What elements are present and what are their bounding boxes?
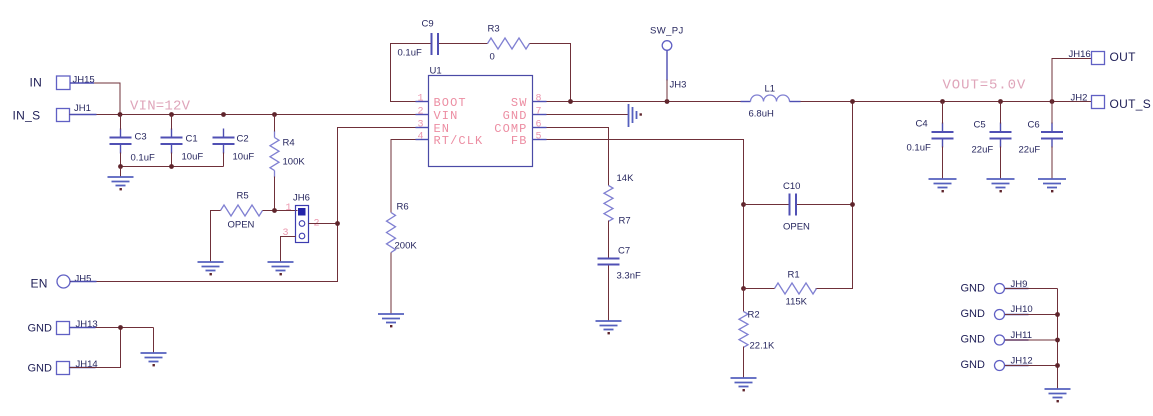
junction bottom rail dots — [118, 164, 123, 169]
junction VOUT rail — [850, 99, 855, 104]
wire C4 leads — [942, 102, 944, 124]
svg-text:JH1: JH1 — [74, 103, 91, 114]
resistor R1 115K — [775, 270, 817, 308]
port IN_S connector JH1 — [13, 103, 91, 123]
svg-text:JH10: JH10 — [1011, 304, 1033, 315]
wire VOUT down branch — [816, 102, 853, 289]
capacitor C3 0.1uF — [110, 129, 155, 164]
svg-text:GND: GND — [28, 363, 53, 375]
ground below JH6 pin3 — [268, 262, 294, 275]
svg-text:200K: 200K — [395, 241, 418, 252]
svg-text:0.1uF: 0.1uF — [131, 153, 155, 164]
ground below JH13/JH14 — [141, 353, 167, 366]
capacitor C7 3.3nF — [598, 246, 641, 282]
U1 pin numbers — [417, 94, 541, 143]
port GND connector JH10 — [961, 304, 1033, 320]
port GND connector JH13 — [28, 319, 98, 335]
wire C5 leads — [1000, 102, 1002, 124]
svg-text:22uF: 22uF — [972, 145, 994, 156]
wire C9 to R3 — [439, 43, 488, 45]
svg-text:3: 3 — [283, 228, 289, 239]
svg-text:R2: R2 — [748, 310, 760, 321]
capacitor C10 OPEN — [783, 181, 810, 233]
svg-text:VIN=12V: VIN=12V — [130, 99, 191, 115]
ground sideways at U1 GND pin — [629, 104, 642, 127]
capacitor C5 22uF — [972, 120, 1012, 156]
svg-text:IN: IN — [30, 76, 43, 90]
port OUT_S connector JH2 — [1071, 93, 1152, 112]
ground below R5 — [198, 262, 224, 275]
svg-text:SW_PJ: SW_PJ — [650, 26, 684, 37]
junction VIN rail dots — [118, 112, 123, 117]
probe jack SW_PJ connector JH3 — [650, 26, 686, 91]
svg-text:10uF: 10uF — [233, 152, 255, 163]
port GND connector JH9 — [961, 279, 1028, 295]
wire RT/CLK to R6 — [391, 140, 416, 213]
svg-text:C5: C5 — [974, 120, 986, 131]
svg-text:1: 1 — [417, 94, 423, 105]
wire JH6 pin3 to ground — [281, 237, 296, 262]
svg-text:OUT_S: OUT_S — [1110, 97, 1152, 111]
wire VIN rail — [70, 114, 416, 116]
svg-text:JH13: JH13 — [76, 319, 98, 330]
svg-text:14K: 14K — [617, 173, 635, 184]
wire JH3 stub — [666, 80, 668, 102]
jumper header JH6 — [293, 193, 310, 243]
svg-text:R3: R3 — [488, 24, 500, 35]
wire R6 to ground — [390, 253, 392, 314]
svg-text:3.3nF: 3.3nF — [617, 271, 641, 282]
ground below C3 — [108, 177, 134, 190]
U1 pin names — [434, 96, 528, 148]
svg-text:R5: R5 — [237, 191, 249, 202]
svg-text:3: 3 — [417, 120, 423, 131]
svg-text:GND: GND — [961, 308, 986, 320]
U1 pin stubs left — [416, 102, 429, 140]
svg-text:115K: 115K — [786, 297, 808, 308]
svg-text:OPEN: OPEN — [228, 220, 255, 231]
svg-text:JH16: JH16 — [1069, 49, 1091, 60]
junction R4/R5/JH6 node — [272, 208, 277, 213]
wire FB net — [547, 140, 744, 289]
svg-text:JH15: JH15 — [73, 75, 95, 86]
wire JH13/JH14 ground net — [70, 327, 154, 329]
svg-text:JH5: JH5 — [75, 274, 92, 285]
svg-text:1: 1 — [286, 203, 292, 214]
capacitor C6 22uF — [1019, 120, 1064, 156]
inductor L1 6.8uH — [741, 84, 801, 120]
svg-text:0: 0 — [490, 52, 495, 63]
junction JH14 riser — [118, 325, 123, 330]
capacitor C4 0.1uF — [907, 119, 954, 154]
wire C10 right lead — [797, 204, 853, 206]
svg-text:U1: U1 — [430, 66, 442, 77]
wire JH15 to VIN rail — [70, 83, 120, 115]
svg-text:GND: GND — [961, 334, 986, 346]
wire BOOT loop left — [391, 44, 432, 102]
svg-text:C7: C7 — [618, 246, 630, 257]
capacitor C2 10uF — [213, 129, 255, 163]
wire C1 leads — [171, 115, 173, 130]
svg-text:5: 5 — [536, 132, 542, 143]
capacitor C9 0.1uF — [398, 19, 439, 59]
svg-text:22.1K: 22.1K — [750, 341, 775, 352]
svg-text:C9: C9 — [422, 19, 434, 30]
ground below R6 — [378, 314, 404, 327]
ground below R2 — [731, 378, 757, 391]
wire C6 leads — [1051, 102, 1053, 124]
wire COMP net to R7 — [547, 128, 609, 186]
svg-text:EN: EN — [31, 277, 48, 291]
resistor R6 200K — [387, 202, 418, 253]
svg-text:6.8uH: 6.8uH — [749, 109, 774, 120]
svg-text:C6: C6 — [1028, 120, 1040, 131]
svg-text:JH14: JH14 — [76, 359, 98, 370]
svg-text:8: 8 — [536, 94, 542, 105]
svg-text:R6: R6 — [397, 202, 409, 213]
resistor R7 14K — [604, 173, 634, 227]
port GND connector JH12 — [961, 356, 1033, 372]
wire C2 lead to bottom rail — [223, 153, 225, 167]
svg-text:C3: C3 — [135, 132, 147, 143]
svg-text:C4: C4 — [916, 119, 928, 130]
ground below C6 — [1038, 179, 1066, 192]
wire JH9-JH12 ground bus — [1005, 289, 1058, 389]
svg-text:BOOT: BOOT — [434, 96, 467, 110]
wire GND pin to sideways ground — [547, 114, 629, 116]
wire R2 top lead — [743, 289, 745, 312]
wire R4 leads — [274, 115, 276, 132]
svg-text:VOUT=5.0V: VOUT=5.0V — [943, 78, 1027, 94]
svg-text:JH2: JH2 — [1071, 93, 1088, 104]
ground below C7 — [596, 321, 622, 334]
svg-text:2: 2 — [417, 107, 423, 118]
svg-text:R7: R7 — [619, 216, 631, 227]
wire C7 to ground — [608, 266, 610, 321]
svg-text:100K: 100K — [283, 157, 306, 168]
port EN connector JH5 — [31, 274, 92, 291]
wire R1 left lead — [744, 288, 775, 290]
resistor R3 0 — [488, 24, 530, 63]
wire SW net — [547, 101, 751, 103]
svg-text:FB: FB — [511, 134, 528, 148]
svg-text:OUT: OUT — [1110, 50, 1137, 64]
wire EN net — [70, 128, 416, 282]
junction SW/BOOT riser — [568, 99, 573, 104]
svg-text:JH3: JH3 — [670, 80, 687, 91]
wire R2 to ground — [743, 347, 745, 378]
junction FB/R1/R2 — [741, 286, 746, 291]
svg-text:R1: R1 — [788, 270, 800, 281]
wire C10 left lead — [744, 204, 790, 206]
wire R7 to C7 — [608, 221, 610, 258]
junction C10 right — [850, 202, 855, 207]
junction SW/JH3 — [665, 99, 670, 104]
svg-text:SW: SW — [511, 96, 528, 110]
svg-text:GND: GND — [961, 283, 986, 295]
svg-text:22uF: 22uF — [1019, 145, 1041, 156]
op IC U1 body — [429, 66, 533, 167]
port GND connector JH14 — [28, 359, 98, 375]
ground below C4 — [929, 179, 957, 192]
svg-text:4: 4 — [417, 132, 423, 143]
svg-text:OPEN: OPEN — [783, 222, 810, 233]
wire C3 leads — [120, 115, 122, 130]
svg-text:RT/CLK: RT/CLK — [434, 134, 484, 148]
svg-text:6: 6 — [536, 120, 542, 131]
resistor R4 100K — [270, 131, 305, 178]
port OUT connector JH16 — [1069, 49, 1137, 65]
svg-text:R4: R4 — [283, 138, 295, 149]
wire R3 to SW riser — [530, 44, 571, 102]
wire JH16 branch — [1052, 59, 1092, 102]
resistor R2 22.1K — [739, 310, 775, 352]
resistor R5 OPEN — [221, 191, 263, 231]
port IN connector JH15 — [30, 75, 95, 90]
svg-text:GND: GND — [961, 359, 986, 371]
svg-text:7: 7 — [536, 107, 542, 118]
svg-text:GND: GND — [503, 109, 528, 123]
svg-text:C10: C10 — [783, 181, 800, 192]
ground below C5 — [987, 179, 1015, 192]
ground below JH9-JH12 bus — [1045, 389, 1071, 402]
junction FB/C10 left — [741, 202, 746, 207]
port GND connector JH11 — [961, 330, 1032, 346]
svg-text:C1: C1 — [186, 134, 198, 145]
svg-text:C2: C2 — [237, 134, 249, 145]
junction ground bus dots — [1055, 312, 1060, 317]
svg-text:JH6: JH6 — [293, 193, 310, 204]
svg-text:GND: GND — [28, 323, 53, 335]
wire R5 to JH6 pin1 — [263, 210, 298, 212]
wire VOUT rail — [801, 101, 1092, 103]
wire R5 left leg — [211, 211, 221, 262]
wire input cap bottom rail — [121, 166, 224, 168]
svg-text:0.1uF: 0.1uF — [907, 143, 931, 154]
capacitor C1 10uF — [161, 129, 204, 163]
svg-text:10uF: 10uF — [182, 152, 204, 163]
U1 pin stubs right — [533, 102, 547, 140]
svg-text:VIN: VIN — [434, 109, 459, 123]
wire JH6 pin2 to EN riser — [309, 223, 338, 225]
wire to ground below C3 — [120, 167, 122, 177]
svg-text:L1: L1 — [765, 84, 776, 95]
svg-text:0.1uF: 0.1uF — [398, 48, 422, 59]
svg-text:IN_S: IN_S — [13, 109, 41, 123]
junction EN riser / JH6 pin2 — [335, 221, 340, 226]
